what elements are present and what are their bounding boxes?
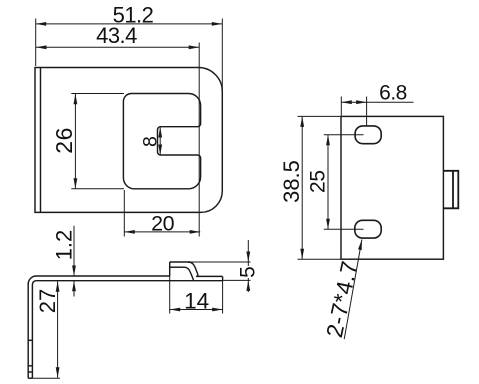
front view inner left line — [40, 68, 42, 213]
dim 51.2 extension right — [221, 19, 223, 90]
L profile strip top right segment — [196, 275, 223, 277]
dim 26 extension top — [71, 93, 124, 95]
arrowheads dim 6.8 — [341, 100, 352, 104]
dim 51.2 line — [36, 23, 223, 25]
L profile strip bottom line — [32, 281, 222, 379]
lip inner line — [170, 266, 185, 268]
dim 38.5 extension top — [298, 115, 341, 117]
dim 6.8 extension left — [340, 97, 342, 116]
leader line 2-7*4.7 — [344, 240, 362, 340]
L profile leg tick 3 — [28, 371, 32, 373]
dim 14 left extension — [169, 276, 171, 314]
dim 27 bottom extension — [32, 377, 60, 379]
svg-text:14: 14 — [184, 288, 209, 313]
dim 25 line — [327, 135, 329, 229]
right view rectangle — [341, 116, 443, 259]
svg-text:8: 8 — [139, 136, 161, 147]
dim 27 line — [57, 281, 59, 378]
arrowheads dim 51.2 — [36, 22, 47, 26]
lip top line — [170, 261, 190, 263]
dim 5 upper leader — [247, 240, 249, 266]
arrowheads dim 20 — [124, 230, 135, 234]
arrowhead leader 2-7*4.7 — [358, 240, 362, 251]
dim 1.2 upper line — [73, 226, 75, 276]
svg-text:38.5: 38.5 — [279, 160, 304, 203]
dim 20 left extension — [123, 190, 125, 237]
svg-text:6.8: 6.8 — [379, 82, 407, 105]
dim 25 extension top — [324, 134, 364, 136]
arrowheads dim 25 — [326, 135, 330, 146]
lip inner bend — [185, 267, 194, 281]
right view top oval hole — [355, 126, 381, 144]
L profile (side view) outer outline — [28, 276, 170, 378]
dim 26 extension bottom — [71, 188, 124, 190]
dim 51.2 extension left — [35, 19, 37, 67]
dim 38.5 extension bottom — [298, 258, 341, 260]
svg-text:1.2: 1.2 — [52, 230, 77, 261]
right view tab — [443, 171, 458, 209]
L profile leg tick 2 — [28, 365, 32, 367]
svg-text:20: 20 — [151, 212, 174, 236]
dim 1.2 lower line — [73, 281, 75, 297]
dim 38.5 line — [301, 116, 303, 259]
arrowheads dim 1.2 — [72, 266, 76, 277]
dim 5 lower leader — [247, 278, 249, 292]
arrowheads dim 43.4 — [36, 45, 47, 49]
svg-text:25: 25 — [307, 170, 330, 193]
L profile right end cap — [222, 276, 224, 280]
dim 14 line — [170, 309, 223, 311]
arrowheads dim 8 — [158, 127, 162, 138]
L profile leg bottom cap — [28, 377, 32, 379]
arrowheads dim 38.5 — [300, 116, 304, 127]
svg-text:5: 5 — [237, 266, 260, 278]
svg-text:26: 26 — [51, 127, 77, 154]
arrowheads dim 26 — [74, 94, 78, 105]
dim 26 line — [74, 94, 76, 189]
svg-text:27: 27 — [35, 289, 60, 313]
svg-text:43.4: 43.4 — [96, 23, 137, 48]
dim 43.4 / 20 right extension — [198, 43, 200, 237]
dim 5 top extension — [190, 261, 251, 263]
dim 6.8 extension right — [366, 97, 368, 127]
front view slot with notch — [123, 94, 200, 189]
lip left edge — [169, 262, 171, 276]
dim 20 line — [124, 231, 200, 233]
arrowheads dim 14 — [170, 308, 181, 312]
dim 8 line — [159, 127, 161, 155]
dim 43.4 line — [36, 46, 199, 48]
front view outer outline — [35, 68, 222, 213]
right view bottom oval hole — [355, 220, 381, 238]
L profile leg tick 1 — [28, 339, 32, 341]
arrowheads dim 5 — [246, 252, 250, 263]
dim 5 bottom extension — [223, 279, 251, 281]
dim 6.8 line — [341, 101, 413, 103]
dim 14 right extension — [222, 281, 224, 314]
right view tab inner line — [452, 171, 454, 209]
lip outer bend — [188, 262, 198, 277]
dim 25 extension bottom — [324, 228, 364, 230]
arrowheads dim 27 — [56, 281, 60, 292]
